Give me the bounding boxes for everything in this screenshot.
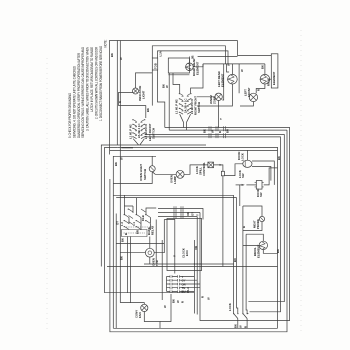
vertical 200 — [200, 213, 250, 321]
surface switch SW-B — [128, 119, 155, 145]
svg-text:BU: BU — [226, 129, 230, 133]
lower cabinet frame left and top stub — [113, 156, 156, 328]
DSW dashed link — [126, 226, 154, 228]
door switch module — [256, 181, 262, 190]
svg-text:ELEMENT: ELEMENT — [272, 71, 276, 85]
spill detector lamp X-box — [208, 162, 214, 168]
DSW extra contacts — [129, 209, 151, 224]
wire rectB drop — [168, 73, 170, 130]
svg-text:GY: GY — [116, 221, 120, 225]
wire CN2 drop — [160, 294, 171, 322]
svg-text:5. CHECK FOR PROPER GROUNDING: 5. CHECK FOR PROPER GROUNDING — [68, 92, 72, 138]
wire bus y150 long — [110, 149, 278, 151]
vertical 130 lower — [129, 237, 131, 303]
left front indicator C5 — [249, 93, 257, 101]
wire E4 left to switch — [197, 96, 215, 98]
E4 cross mark — [216, 94, 221, 99]
svg-text:B: B — [124, 233, 128, 235]
DSW feed wires — [125, 206, 142, 230]
svg-text:TOD: TOD — [155, 260, 159, 266]
svg-text:BK: BK — [120, 256, 124, 260]
SW-B inner ticks — [135, 122, 142, 135]
SW-B contacts right column — [141, 120, 144, 139]
wire stub y313 — [247, 313, 248, 315]
svg-text:LATCH IN PLACE. RETURN DIAGRAM: LATCH IN PLACE. RETURN DIAGRAM TO RANGE — [90, 47, 94, 112]
svg-text:BK: BK — [114, 162, 118, 166]
wire OLS bottom — [113, 172, 152, 184]
CN2 left edge — [166, 277, 168, 292]
wire mid bus y266 — [107, 266, 278, 268]
svg-text:L1 H1 P H2: L1 H1 P H2 — [128, 124, 132, 139]
svg-text:ELEMENT: ELEMENT — [220, 73, 224, 87]
wire E4 down to bus — [218, 101, 220, 128]
svg-text:LOCK: LOCK — [228, 303, 232, 311]
svg-text:SWITCH: SWITCH — [143, 169, 147, 180]
SW-A inner ticks — [182, 96, 189, 111]
X-box cross — [208, 162, 214, 168]
svg-text:SWITCH: SWITCH — [197, 102, 201, 113]
motor bar — [244, 161, 246, 168]
wire L2 top feed — [158, 51, 229, 64]
svg-text:W: W — [165, 85, 169, 88]
svg-text:W: W — [120, 157, 124, 160]
svg-text:CONTROL: CONTROL — [202, 162, 206, 176]
lock switch arrow — [236, 184, 244, 186]
wire TOD top — [149, 237, 151, 249]
svg-text:W: W — [240, 69, 244, 72]
svg-text:L1 H1 P H2: L1 H1 P H2 — [175, 99, 179, 114]
wire top feed 3 — [198, 56, 238, 58]
svg-text:W: W — [239, 325, 243, 328]
svg-text:DANGEROUS OPERATION. VERIFY PR: DANGEROUS OPERATION. VERIFY PROPER OPERA… — [77, 52, 81, 138]
plug rect below arrow — [221, 171, 224, 176]
vertical 127 lower — [126, 237, 128, 293]
wire E2 bottom merge — [197, 84, 232, 106]
warm zone indicator E4 — [215, 93, 222, 100]
vertical 156 — [155, 220, 157, 265]
svg-text:TOD: TOD — [153, 63, 157, 69]
MID BUSES — [107, 126, 290, 328]
svg-text:2. CIRCUITS SHOWN WITH ALL CON: 2. CIRCUITS SHOWN WITH ALL CONTROLS OFF … — [94, 46, 98, 119]
CN2 pin pairs — [170, 275, 180, 293]
outer ground wire bottom-left — [110, 130, 287, 332]
svg-text:BK: BK — [172, 299, 176, 303]
wire bus y127 — [165, 128, 290, 321]
DSW contact arrows — [125, 215, 142, 230]
wire E1 top riser — [188, 57, 190, 64]
long vertical 116 — [115, 214, 117, 329]
svg-text:SERVICING. 4. DO NOT OPERATE U: SERVICING. 4. DO NOT OPERATE UNIT UNTIL … — [72, 65, 76, 138]
upper cabinet frame top and left — [110, 41, 272, 155]
svg-text:R: R — [256, 89, 260, 91]
MP pin — [260, 217, 264, 221]
vertical 164 — [154, 220, 164, 253]
SW-A terminal dots — [179, 93, 180, 94]
svg-text:3. CAUTION LABEL ALL WIRES PRI: 3. CAUTION LABEL ALL WIRES PRIOR TO DISC… — [86, 46, 90, 131]
oven light switch OLS — [149, 166, 155, 172]
connector CN2 — [167, 275, 201, 303]
wire L1 top feed — [152, 46, 225, 64]
DSW more contacts — [129, 209, 146, 225]
broil element BE — [259, 241, 267, 249]
svg-text:BK: BK — [203, 129, 207, 133]
svg-text:Y: Y — [219, 118, 223, 120]
wire element row link — [193, 64, 265, 67]
svg-text:Y: Y — [195, 214, 199, 216]
LOWER SECTION — [113, 148, 281, 329]
svg-text:BK: BK — [234, 324, 238, 328]
wire BE top — [246, 234, 263, 241]
door lock motor M — [243, 160, 252, 167]
svg-text:Y: Y — [173, 255, 177, 257]
wire C5 down — [240, 102, 253, 106]
vertical 132 — [132, 206, 134, 213]
svg-text:L1A: L1A — [159, 51, 163, 56]
wire motor right top — [252, 161, 274, 185]
wire fuse drop b — [158, 70, 165, 128]
svg-text:BR: BR — [136, 230, 140, 234]
SW-A merge wires — [180, 114, 191, 130]
wire lock sw to door sw — [246, 184, 256, 186]
DSW inner dashes — [124, 232, 146, 234]
DSW risers — [125, 195, 137, 210]
vertical 197 — [196, 217, 198, 315]
wire CF bottom — [144, 312, 160, 329]
wire mid bus y264 — [144, 263, 234, 265]
SW-A contacts right column — [187, 94, 190, 115]
plug row 3 — [158, 216, 197, 218]
vertical 194 — [193, 240, 195, 314]
SW-A contacts left column — [180, 94, 183, 115]
C5 cross mark — [250, 94, 256, 100]
wire top feed BK left — [116, 41, 118, 146]
left rear surface element E3 — [260, 74, 270, 84]
vertical 242 — [242, 206, 244, 314]
surface switch SW-A — [175, 93, 202, 130]
bus plug pair symbols — [209, 126, 226, 138]
svg-text:1. DISCONNECT RANGE FROM POWER: 1. DISCONNECT RANGE FROM POWER BEFORE SE… — [99, 45, 103, 121]
svg-text:LIGHT: LIGHT — [141, 90, 145, 99]
wire BE left — [243, 244, 259, 246]
DSW terminal dots — [124, 214, 125, 215]
wire blade drop a — [237, 319, 239, 329]
wire feed left 2 — [119, 41, 121, 148]
wire BE bottom — [263, 250, 277, 254]
block left edge vertical — [161, 240, 163, 300]
svg-text:PROBE: PROBE — [256, 219, 260, 229]
DSW outline — [122, 230, 148, 237]
svg-text:BK: BK — [277, 156, 281, 160]
wire plug drop — [222, 176, 224, 267]
plug row 1 — [158, 209, 203, 220]
wire MP top — [243, 206, 262, 216]
wire bus y147 — [117, 147, 277, 328]
DSW extra feeds — [146, 208, 156, 230]
wire motor feed — [246, 150, 248, 160]
vertical 233 — [233, 195, 235, 313]
SW-B terminal dots — [132, 119, 133, 120]
svg-text:GY: GY — [191, 212, 195, 216]
NOTES TEXT BLOCK (rotated service notes) — [68, 40, 107, 138]
svg-text:R: R — [201, 296, 205, 298]
svg-text:ZONE: ZONE — [212, 96, 216, 104]
svg-text:R: R — [242, 226, 246, 228]
SW-B merge wires — [133, 139, 144, 145]
svg-text:2A 3B 4 1C: 2A 3B 4 1C — [183, 98, 187, 113]
plug row 2 ticks — [174, 210, 183, 214]
wire lock switch down — [239, 185, 241, 206]
wire IND1 bottom — [119, 93, 133, 106]
oven lamp OL — [176, 170, 184, 178]
svg-text:EOC: EOC — [185, 250, 189, 256]
svg-text:BK: BK — [146, 108, 150, 112]
svg-text:SW: SW — [241, 173, 245, 178]
BE coil mark — [260, 242, 265, 250]
bake relay contacts cluster — [120, 206, 156, 237]
svg-text:W: W — [176, 300, 180, 303]
vertical 236 — [237, 198, 238, 314]
wire left outer run 2 — [105, 147, 195, 292]
plug row 2 — [158, 212, 200, 214]
svg-text:LAMP: LAMP — [173, 176, 177, 184]
wire E3 bottom — [256, 84, 265, 93]
jog 164-174 — [164, 220, 175, 222]
svg-text:ELEMENT: ELEMENT — [196, 61, 200, 75]
wire y197 — [116, 197, 236, 199]
long vertical 120 — [119, 148, 121, 303]
wire rectB bottom parallel — [168, 74, 189, 76]
arrowhead — [220, 164, 223, 166]
svg-text:P1-8: P1-8 — [186, 287, 190, 293]
left rear element box — [271, 54, 278, 88]
wire bus y130 — [169, 129, 287, 131]
vertical 174 — [174, 221, 176, 274]
wire bus y145 — [139, 144, 206, 146]
right rear element box — [168, 58, 189, 73]
svg-text:NOTE:: NOTE: — [103, 40, 107, 48]
wire motor left — [224, 164, 242, 176]
element E2 coil mark — [228, 75, 234, 83]
wire OL right — [184, 165, 208, 174]
svg-text:W: W — [211, 130, 215, 133]
wire MP bottom — [243, 222, 262, 231]
svg-text:R: R — [218, 131, 222, 133]
wire drop to warm zone — [222, 64, 223, 100]
wire OLS top — [151, 156, 153, 165]
wire left outer run 1 — [101, 145, 138, 267]
CN2 row wires — [167, 277, 201, 292]
wire bus y137 — [145, 137, 281, 312]
svg-text:W: W — [226, 63, 230, 66]
frame bottom edge — [113, 327, 277, 329]
wire SW-A riser right — [191, 64, 203, 93]
wire X-box right arrow — [214, 165, 223, 171]
svg-text:BU: BU — [233, 258, 237, 262]
oven control board outline — [167, 219, 202, 271]
svg-text:ELEMENT: ELEMENT — [257, 244, 261, 258]
svg-text:OR: OR — [194, 246, 198, 250]
wire motor right bottom — [252, 167, 271, 181]
svg-text:W: W — [207, 297, 211, 300]
element E1 coil mark — [186, 64, 191, 71]
wire bus y134 — [145, 135, 285, 302]
surface indicator lamp IND1 — [133, 88, 139, 94]
right rear surface element E1 — [186, 63, 194, 71]
wire TOD bottom — [149, 257, 151, 264]
svg-text:RELAY: RELAY — [150, 226, 154, 235]
svg-text:R: R — [244, 326, 248, 328]
wire drop to E2 — [227, 64, 265, 75]
wire stub y147 left — [121, 147, 133, 149]
oven temp TOD — [145, 248, 154, 257]
wire CF top — [120, 303, 144, 305]
OL cross mark — [177, 172, 183, 178]
svg-text:SERVICING CONTROLS. WIRING ERR: SERVICING CONTROLS. WIRING ERRORS CAN CA… — [81, 46, 85, 138]
svg-text:R: R — [181, 301, 185, 303]
fuse block F1 — [152, 58, 157, 70]
wire E3 right stub — [270, 78, 272, 80]
wire TOD left — [120, 252, 145, 254]
svg-text:DLB: DLB — [141, 215, 145, 221]
wire y243 — [116, 243, 164, 245]
IND1 cross mark — [133, 89, 137, 93]
meat probe jack MP — [259, 216, 264, 221]
wire SW-A riser left — [173, 73, 180, 93]
svg-text:W: W — [163, 305, 167, 308]
convection fan motor CF — [141, 304, 148, 311]
svg-text:SWITCH: SWITCH — [151, 128, 155, 139]
element E3 coil mark — [261, 75, 267, 83]
svg-text:BK: BK — [261, 65, 265, 69]
plunger switch dots — [233, 313, 234, 314]
wire fuse drop a — [151, 70, 153, 106]
plug row 3 ticks — [174, 214, 183, 218]
page edge dotted left — [46, 58, 48, 330]
svg-text:BK: BK — [276, 249, 280, 253]
door switch pins — [255, 183, 264, 187]
wire blade drop b — [246, 319, 248, 329]
wire y195 — [113, 194, 233, 196]
lock switch arrowhead — [242, 184, 245, 186]
wire drop right of E2 — [238, 64, 240, 93]
wire OL left — [152, 172, 176, 175]
svg-text:R: R — [118, 101, 122, 103]
wire door sw right — [264, 168, 278, 185]
wire IND1 top — [136, 73, 153, 88]
svg-text:BK: BK — [121, 238, 125, 242]
right front surface element E2 — [228, 74, 238, 84]
svg-text:FRONT: FRONT — [247, 87, 251, 97]
svg-text:LOCK: LOCK — [240, 153, 244, 161]
svg-text:W: W — [119, 57, 123, 60]
OLS stem — [150, 167, 154, 171]
svg-text:BK: BK — [110, 53, 114, 57]
vertical 246 — [246, 234, 247, 313]
DSW extra dots — [128, 209, 129, 210]
svg-text:BU: BU — [182, 290, 186, 294]
junction dots y264 — [194, 263, 195, 264]
door lock plunger switch blades — [234, 314, 247, 319]
page edge dotted right — [300, 30, 302, 334]
CF blades — [142, 305, 147, 310]
TOD inner — [148, 251, 152, 255]
SW-B contacts left column — [133, 120, 136, 139]
wire IND1 to switch B — [119, 106, 146, 118]
UPPER SECTION — [117, 41, 278, 148]
plug row 1 ticks — [174, 206, 183, 210]
svg-text:FAN: FAN — [138, 312, 142, 318]
svg-text:RIGHT: RIGHT — [267, 77, 271, 86]
svg-text:SW: SW — [259, 192, 263, 197]
svg-text:5B: 5B — [191, 55, 195, 59]
